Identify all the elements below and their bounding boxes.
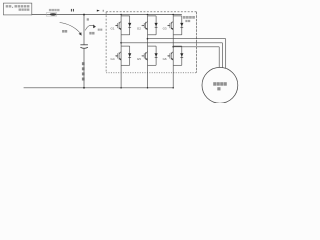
current direction arrow on bus <box>97 10 104 12</box>
node: phase W tap <box>172 46 174 48</box>
svg-text:G3: G3 <box>163 27 167 31</box>
node: phase V tap <box>147 38 149 40</box>
wire: phase vertical col3 <box>172 35 174 46</box>
motor M: 感应电动机 <box>202 67 238 103</box>
wire: phase W horizontal <box>173 46 219 48</box>
node: rail junction col3 <box>172 87 174 89</box>
node: bus junction col2 <box>147 14 149 16</box>
small label near junction <box>87 18 89 20</box>
svg-text:G1: G1 <box>110 27 114 31</box>
node: phase U tap <box>120 42 122 44</box>
transistor unit G3 with freewheel diode <box>163 16 184 35</box>
wire: emitter to rail col1 <box>120 65 122 88</box>
source box: 电网、发电机或蓄电池 <box>3 3 31 15</box>
wire: emitter to rail col2 <box>147 65 149 88</box>
wire: DC bus from source box to inverter <box>32 14 182 16</box>
node: capacitor/rail junction <box>83 87 85 89</box>
wire: phase W vertical to motor <box>218 47 220 68</box>
node: rail junction col1 <box>120 87 122 89</box>
node: rail junction col2 <box>147 87 149 89</box>
inverter module dashed box <box>106 12 196 73</box>
wire: phase U vertical to motor <box>221 43 223 68</box>
fuse F on DC bus <box>46 13 57 16</box>
wire: phase vertical col1 <box>120 35 122 46</box>
module label: 逆变器或斩波器 <box>183 16 195 22</box>
fuse label 大熔断器 <box>49 9 60 11</box>
wire: emitter to rail col3 <box>172 65 174 88</box>
node: bus junction col3 <box>172 14 174 16</box>
wire: phase V vertical to motor <box>225 39 227 69</box>
transistor unit G5 with freewheel diode <box>137 46 158 65</box>
svg-text:G5: G5 <box>137 57 141 61</box>
transistor unit G2 with freewheel diode <box>137 16 158 35</box>
svg-text:G6: G6 <box>163 57 167 61</box>
svg-text:G2: G2 <box>137 27 141 31</box>
wire: phase U horizontal <box>121 42 222 44</box>
wire: phase vertical col2 <box>147 35 149 46</box>
transistor unit G1 with freewheel diode <box>110 16 131 35</box>
negative rail (bottom return wire) <box>24 87 174 89</box>
arrow: discharge current to inverter, label 放电 <box>85 25 102 35</box>
transistor unit G4 with freewheel diode <box>110 46 131 65</box>
arrow: charging current into capacitor, label 充电 <box>60 23 82 36</box>
node: bus junction col1 <box>120 14 122 16</box>
capacitor C (bus filter capacitor) <box>80 45 88 49</box>
wire: phase V horizontal <box>148 38 226 40</box>
wire: capacitor to negative rail <box>83 48 85 87</box>
node: bus/capacitor junction <box>83 14 85 16</box>
transistor unit G6 with freewheel diode <box>163 46 184 65</box>
vertical label along capacitor wire <box>82 62 85 80</box>
svg-text:G4: G4 <box>110 57 114 61</box>
label B1 on bus <box>71 9 74 12</box>
wire: capacitor branch vertical <box>83 15 85 45</box>
